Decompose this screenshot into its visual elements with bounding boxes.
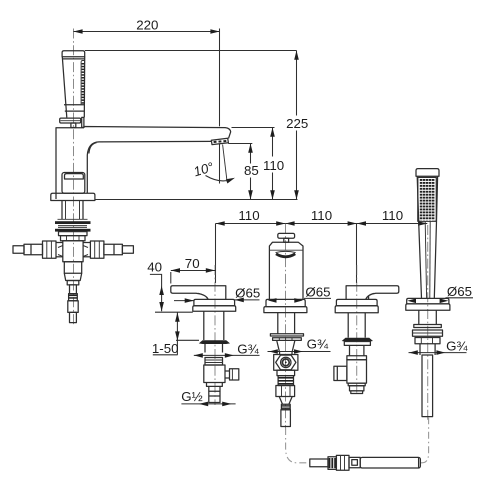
svg-text:40: 40 — [147, 260, 162, 275]
svg-text:Ø65: Ø65 — [305, 285, 330, 300]
svg-text:Ø65: Ø65 — [447, 284, 472, 299]
svg-text:110: 110 — [311, 208, 332, 223]
svg-text:1-50: 1-50 — [152, 341, 179, 356]
svg-text:220: 220 — [136, 17, 158, 32]
svg-text:110: 110 — [263, 158, 284, 173]
svg-text:110: 110 — [382, 208, 403, 223]
svg-text:G¾: G¾ — [237, 342, 259, 357]
svg-text:Ø65: Ø65 — [235, 285, 260, 300]
svg-text:85: 85 — [244, 163, 259, 178]
svg-text:G¾: G¾ — [307, 337, 329, 352]
svg-text:G½: G½ — [181, 389, 202, 404]
svg-text:70: 70 — [185, 256, 200, 271]
svg-text:G¾: G¾ — [446, 338, 468, 353]
svg-text:225: 225 — [286, 116, 308, 131]
svg-text:110: 110 — [238, 208, 259, 223]
